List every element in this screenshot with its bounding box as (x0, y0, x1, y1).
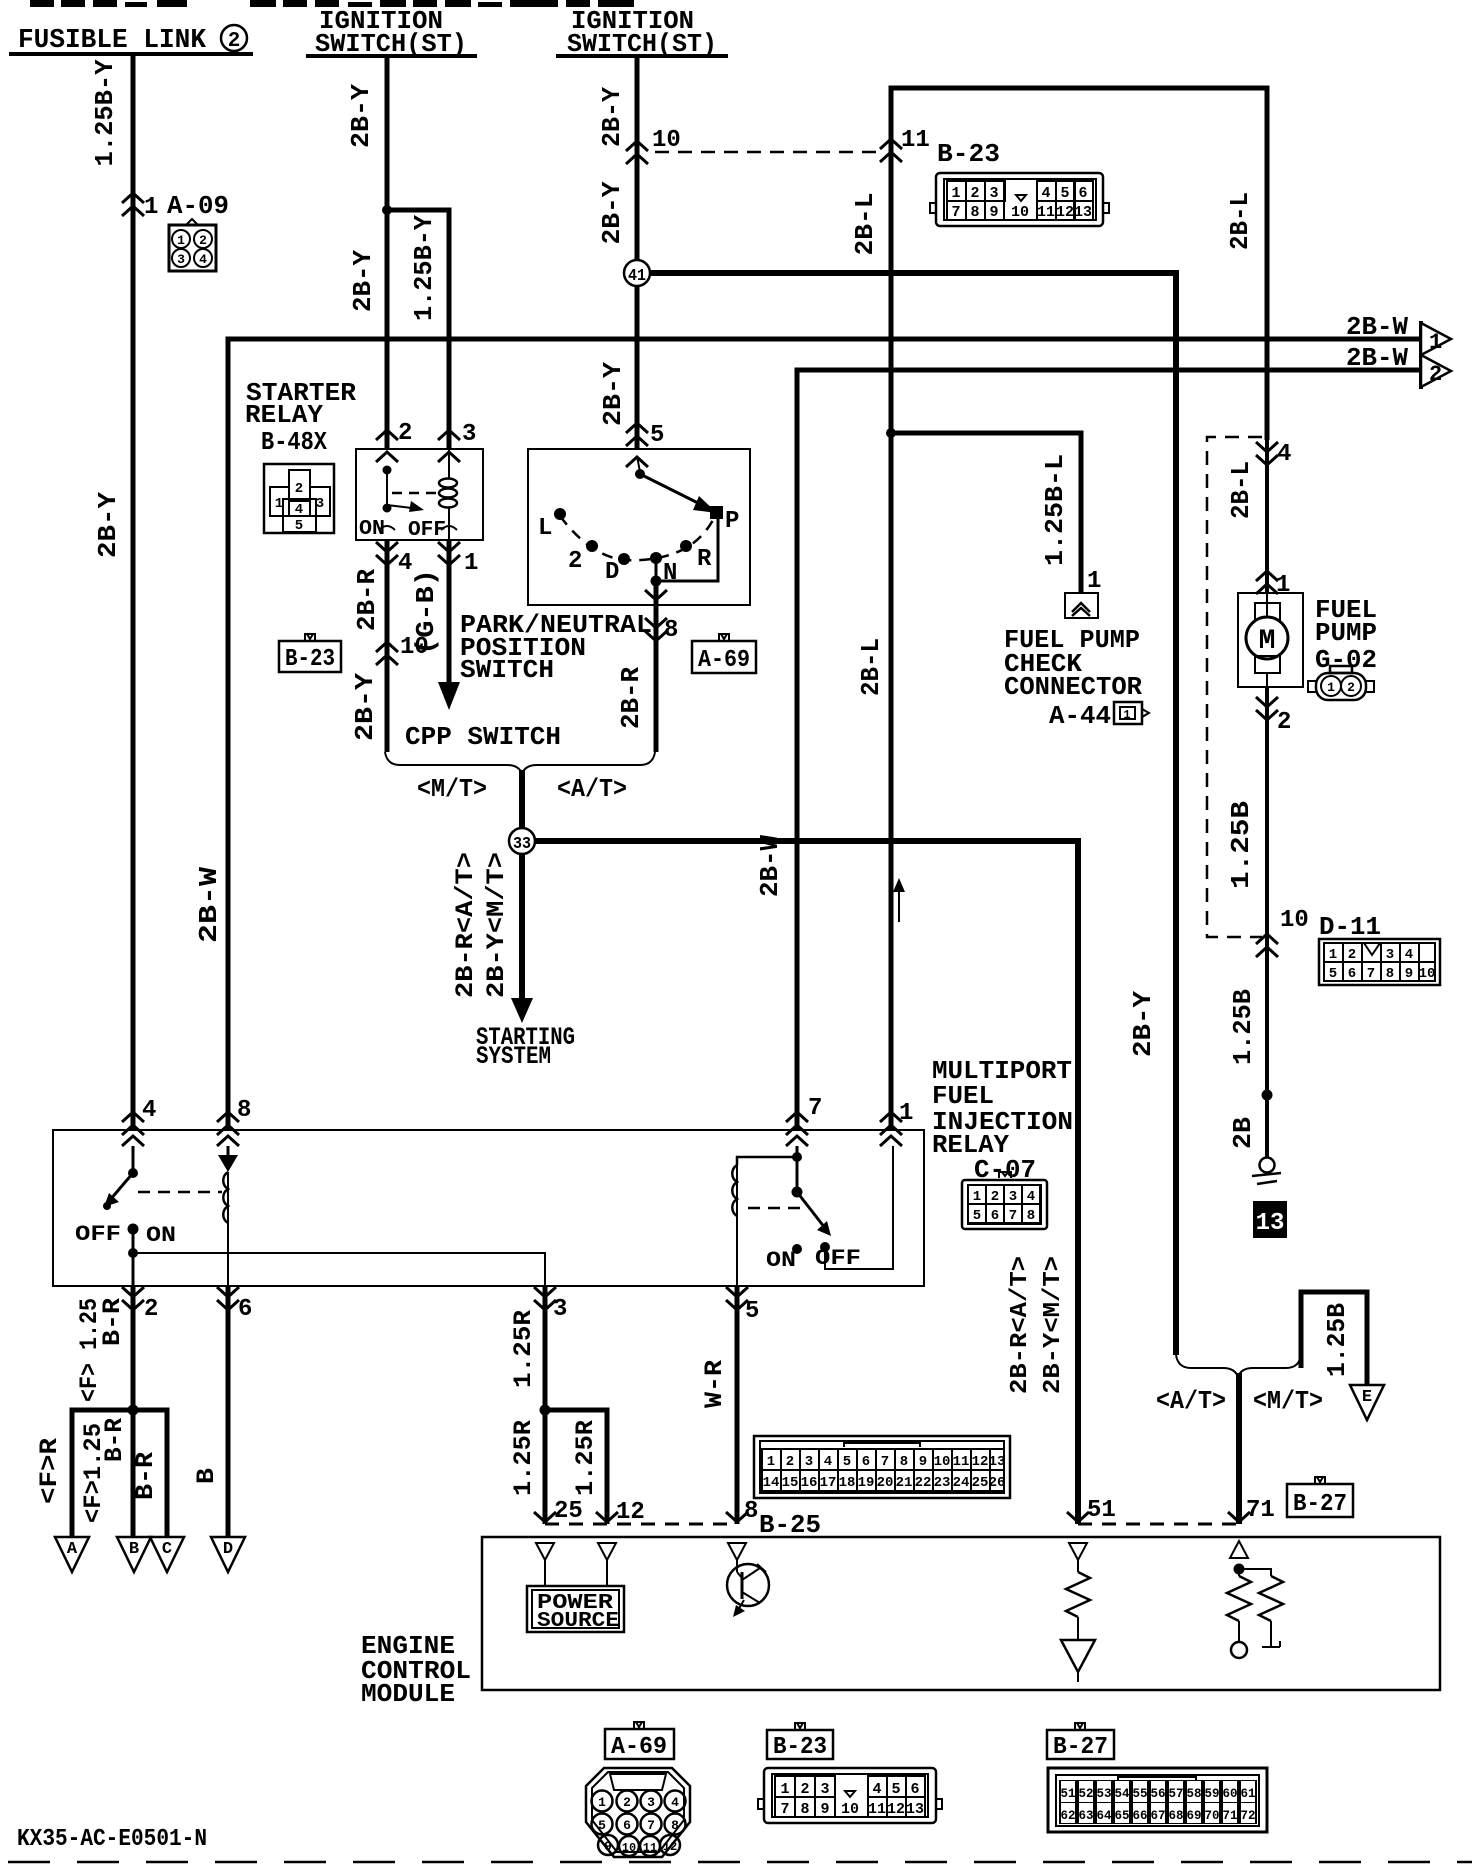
svg-text:B-27: B-27 (1053, 1734, 1108, 1761)
junction dot pullup (1234, 1564, 1245, 1575)
wire branch to ground A (72, 1410, 135, 1537)
svg-text:2B-Y: 2B-Y (93, 492, 123, 558)
label MULTIPORT FUEL INJECTION RELAY C-07 (932, 1056, 1073, 1185)
arrowhead to CPP switch (438, 682, 460, 710)
svg-text:B-R: B-R (100, 1418, 129, 1462)
svg-text:7: 7 (808, 1095, 822, 1122)
ECM input triangle pin 12 (598, 1543, 616, 1560)
svg-text:<A/T>: <A/T> (1156, 1386, 1226, 1416)
svg-text:54: 54 (1114, 1787, 1130, 1801)
svg-text:1.25R: 1.25R (509, 1310, 538, 1388)
wire node 33 down to starting system (519, 854, 525, 1000)
pin 1 inner chevron (880, 1136, 902, 1146)
svg-text:OFF: OFF (75, 1222, 121, 1247)
connector B-25 icon (754, 1436, 1010, 1498)
connector marker pin 10 (626, 141, 648, 164)
svg-text:13: 13 (1256, 1210, 1285, 1237)
svg-text:1.25B-Y: 1.25B-Y (90, 59, 120, 166)
pin 8 inner chevron (217, 1136, 239, 1146)
wire to pin 3 (133, 1253, 545, 1285)
svg-text:2B-Y: 2B-Y (597, 181, 627, 244)
svg-text:51: 51 (1087, 1497, 1116, 1524)
svg-text:OFF: OFF (408, 519, 446, 542)
svg-text:G-02: G-02 (1315, 645, 1377, 675)
svg-text:FUSIBLE LINK: FUSIBLE LINK (18, 26, 207, 56)
svg-text:2: 2 (991, 1189, 999, 1205)
label FUEL PUMP CHECK CONNECTOR A-44 (1004, 625, 1142, 731)
wire node 33 to right column (535, 841, 1078, 1524)
svg-text:3: 3 (177, 252, 185, 267)
svg-text:2B-W: 2B-W (1346, 343, 1408, 373)
svg-text:ON: ON (359, 518, 385, 541)
wire MFI contact to pin 1 (825, 1146, 893, 1269)
svg-text:60: 60 (1222, 1787, 1237, 1801)
resistor R51 (1066, 1560, 1090, 1640)
svg-text:65: 65 (1114, 1809, 1129, 1823)
ground A (55, 1537, 89, 1572)
connector marker pin 4 fuel pump (1256, 442, 1278, 465)
ground D (211, 1537, 245, 1572)
svg-text:R: R (697, 546, 712, 573)
connector B-27 boxed label right (1287, 1477, 1353, 1518)
pin 25 marker (534, 1512, 556, 1522)
svg-text:SOURCE: SOURCE (537, 1610, 619, 1633)
svg-text:2: 2 (228, 30, 241, 53)
svg-text:A-69: A-69 (611, 1734, 667, 1761)
svg-text:6: 6 (238, 1296, 252, 1323)
motor FUEL PUMP G-02 (1238, 593, 1303, 687)
svg-text:OFF: OFF (815, 1246, 861, 1271)
svg-text:8: 8 (237, 1097, 251, 1124)
svg-text:PUMP: PUMP (1315, 618, 1377, 648)
svg-text:B-R: B-R (98, 1298, 127, 1346)
svg-text:5: 5 (1329, 966, 1337, 982)
svg-text:10: 10 (622, 1841, 636, 1855)
svg-text:2B: 2B (1228, 1117, 1258, 1149)
svg-text:3: 3 (1009, 1189, 1017, 1205)
connector marker pin 10 mid (376, 642, 398, 665)
PNP contact dots and arc (554, 506, 723, 565)
svg-text:21: 21 (896, 1475, 913, 1491)
svg-text:2B-L: 2B-L (1225, 192, 1255, 250)
starter relay switch (383, 466, 425, 513)
svg-text:6: 6 (1078, 185, 1087, 202)
svg-text:2: 2 (144, 1296, 158, 1323)
svg-text:1: 1 (1329, 947, 1337, 963)
svg-text:2B-Y: 2B-Y (350, 673, 380, 741)
svg-text:6: 6 (623, 1818, 631, 1833)
pin 8 marker ECM (726, 1512, 748, 1522)
svg-text:25: 25 (972, 1475, 989, 1491)
connector A-69 boxed label bottom (605, 1722, 674, 1761)
svg-text:13: 13 (906, 1801, 924, 1818)
svg-text:3: 3 (989, 185, 998, 202)
dashed link wire to pin 11 (655, 151, 884, 154)
pin 8 exit chevron (645, 590, 667, 600)
svg-text:B-R: B-R (131, 1452, 160, 1500)
connector C-07 icon (962, 1172, 1047, 1229)
connector marker pin 10 D-11 (1256, 934, 1278, 957)
svg-text:10: 10 (1011, 204, 1029, 221)
svg-text:5: 5 (1060, 185, 1069, 202)
bottom separator dashed line (8, 1861, 1472, 1864)
pin 3 marker bottom (534, 1287, 556, 1310)
svg-text:M: M (1259, 626, 1276, 657)
wire 1.25B below fuel pump (1265, 687, 1269, 1160)
connector B-27 icon bottom (1048, 1768, 1267, 1832)
svg-text:59: 59 (1204, 1787, 1219, 1801)
svg-text:6: 6 (991, 1208, 999, 1224)
left relay coil (227, 1172, 229, 1285)
svg-text:8: 8 (970, 204, 979, 221)
svg-text:1: 1 (177, 233, 185, 248)
ground ref 13 black box (1253, 1201, 1287, 1238)
svg-text:MODULE: MODULE (361, 1679, 455, 1709)
svg-text:4: 4 (1277, 441, 1291, 468)
svg-text:N: N (663, 560, 677, 587)
wire pin 6 down to ground D (226, 1285, 231, 1537)
transistor Q inside ECM (727, 1560, 769, 1617)
svg-text:61: 61 (1240, 1787, 1255, 1801)
label ENGINE CONTROL MODULE (361, 1631, 471, 1709)
svg-text:51: 51 (1060, 1787, 1075, 1801)
AT MT bracket right (1176, 1355, 1301, 1377)
switch dashed link to coil (392, 492, 446, 495)
wire 1.25B-L to fuel pump check connector (891, 433, 1081, 593)
connector marker pin 1 A-09 (122, 193, 144, 216)
dashed link MFI relay (748, 1207, 806, 1210)
svg-text:E: E (1362, 1388, 1372, 1407)
svg-text:B-27: B-27 (1293, 1491, 1347, 1518)
PNP switch blade (635, 456, 717, 513)
svg-text:13: 13 (1074, 204, 1092, 221)
wire pin 2 down to ground branches (131, 1285, 136, 1537)
svg-text:5: 5 (295, 518, 303, 534)
svg-text:2: 2 (786, 1454, 794, 1470)
svg-text:41: 41 (628, 267, 646, 286)
connector A-44 termination box (1065, 593, 1098, 618)
connector B-23 boxed label mid-left (279, 634, 341, 673)
svg-text:12: 12 (887, 1801, 905, 1818)
left relay diode (218, 1146, 238, 1172)
ground E (1350, 1385, 1384, 1420)
svg-text:L: L (538, 515, 552, 542)
svg-text:5: 5 (745, 1298, 759, 1325)
starter relay coil (448, 449, 450, 540)
svg-text:2B-R<A/T>: 2B-R<A/T> (451, 852, 480, 998)
wire to power source left (544, 1560, 546, 1586)
svg-text:7: 7 (951, 204, 960, 221)
wire to power source right (606, 1560, 608, 1586)
svg-text:1.25B-L: 1.25B-L (1040, 454, 1070, 566)
svg-text:A-09: A-09 (167, 191, 229, 221)
ground C (150, 1537, 184, 1572)
svg-text:D: D (223, 1540, 233, 1559)
svg-text:2: 2 (970, 185, 979, 202)
svg-text:5: 5 (843, 1454, 851, 1470)
svg-text:2: 2 (800, 1781, 809, 1798)
svg-text:2B-W: 2B-W (1346, 312, 1408, 342)
svg-text:2B-Y: 2B-Y (1128, 991, 1158, 1057)
svg-text:11: 11 (901, 127, 930, 154)
svg-text:14: 14 (763, 1475, 780, 1491)
svg-text:12: 12 (972, 1454, 989, 1470)
svg-text:2: 2 (1277, 709, 1291, 736)
wire 1.25B-Y from fusible link down (131, 54, 136, 1130)
svg-text:67: 67 (1150, 1809, 1165, 1823)
left relay switch (103, 1146, 139, 1285)
connector marker pin 5 (626, 423, 648, 446)
title fragment (cut off page heading) (30, 0, 634, 7)
svg-text:11: 11 (868, 1801, 886, 1818)
svg-text:4: 4 (671, 1795, 679, 1810)
junction dot (382, 205, 392, 215)
svg-text:64: 64 (1096, 1809, 1112, 1823)
pin 3 marker (438, 430, 460, 440)
svg-text:2B-Y<M/T>: 2B-Y<M/T> (482, 852, 511, 998)
svg-text:<A/T>: <A/T> (557, 774, 627, 804)
svg-text:4: 4 (199, 252, 207, 267)
svg-text:9: 9 (1405, 966, 1413, 982)
svg-text:68: 68 (1168, 1809, 1183, 1823)
connector marker pin 2 fuel pump (1256, 697, 1278, 720)
svg-text:2: 2 (1348, 947, 1356, 963)
svg-text:2B-Y<M/T>: 2B-Y<M/T> (1040, 1256, 1067, 1394)
wire 2B-Y ignition switch 1 down (385, 56, 390, 449)
svg-text:23: 23 (934, 1475, 951, 1491)
svg-text:18: 18 (839, 1475, 856, 1491)
svg-text:9: 9 (820, 1801, 829, 1818)
connector B-23 icon (930, 173, 1109, 226)
svg-text:4: 4 (1027, 1189, 1035, 1205)
pin 4 marker below box (376, 542, 398, 565)
dashed ECM connector line B-25 (545, 1523, 737, 1526)
ECM input triangle pin 25 (536, 1543, 554, 1560)
svg-text:A-69: A-69 (698, 647, 750, 674)
pin 51 marker (1067, 1512, 1089, 1522)
wire rail 2B-W no.1 (228, 339, 1419, 1130)
ground body connection (1252, 1158, 1281, 1185)
svg-text:4: 4 (872, 1781, 881, 1798)
pin 5 inner chevron (626, 457, 648, 467)
wire branch to 1.25B-Y (387, 210, 449, 449)
connector marker pin 11 (880, 139, 902, 162)
svg-text:3: 3 (647, 1795, 655, 1810)
node FUSIBLE LINK 2 label (9, 25, 253, 56)
svg-text:1.25B: 1.25B (1322, 1303, 1352, 1377)
svg-text:5: 5 (598, 1818, 606, 1833)
svg-text:B-25: B-25 (759, 1510, 821, 1540)
dashed bypass box around fuel pump (1207, 437, 1262, 937)
svg-text:1: 1 (1429, 330, 1442, 355)
off-page arrow 1 (1421, 321, 1451, 357)
svg-text:2B-Y: 2B-Y (346, 84, 376, 148)
svg-text:1.25B-Y: 1.25B-Y (409, 215, 439, 321)
pin 8 marker top (217, 1112, 239, 1135)
wire bracket stem to node 33 (519, 770, 525, 829)
ground B (117, 1537, 151, 1572)
junction dot 1.25R split (540, 1405, 551, 1416)
svg-text:B-23: B-23 (773, 1734, 827, 1761)
svg-text:6: 6 (1348, 966, 1356, 982)
wire 2B-R from relay pin 4 (385, 540, 390, 752)
svg-text:1.25B: 1.25B (1228, 989, 1258, 1065)
wire 2B-Y ignition switch 2 down (635, 56, 640, 449)
svg-text:1.25B: 1.25B (1226, 801, 1256, 889)
svg-text:1: 1 (780, 1781, 789, 1798)
svg-text:1: 1 (1123, 708, 1130, 722)
svg-text:3: 3 (1386, 947, 1394, 963)
wire to second resistor (1239, 1569, 1271, 1576)
svg-text:W-R: W-R (700, 1360, 729, 1408)
wire branch to ground C (133, 1410, 167, 1537)
svg-text:24: 24 (953, 1475, 970, 1491)
pin 5 marker bottom (726, 1287, 748, 1310)
arrowhead starting system (511, 998, 533, 1023)
junction dot wire size change (1262, 1090, 1273, 1101)
svg-text:1: 1 (951, 185, 960, 202)
connector D-11 icon (1319, 939, 1440, 985)
wire fuel pump feed (1265, 440, 1269, 593)
svg-text:2B-Y: 2B-Y (348, 250, 378, 312)
connector A-69 icon bottom (586, 1768, 690, 1857)
svg-text:55: 55 (1132, 1787, 1147, 1801)
svg-text:1: 1 (767, 1454, 775, 1470)
wire pin 3 down 1.25R (543, 1285, 548, 1524)
svg-text:2B-L: 2B-L (850, 193, 880, 256)
svg-text:1: 1 (464, 550, 478, 577)
svg-text:SWITCH: SWITCH (460, 655, 554, 685)
svg-text:CPP SWITCH: CPP SWITCH (405, 722, 561, 752)
MT/AT selector bracket (385, 752, 655, 774)
svg-text:15: 15 (782, 1475, 799, 1491)
svg-text:<M/T>: <M/T> (1253, 1386, 1323, 1416)
node IGNITION SWITCH (ST) no.1 (306, 6, 477, 59)
svg-text:1: 1 (275, 496, 283, 512)
svg-text:10: 10 (841, 1801, 859, 1818)
node 33 junction circle (509, 828, 535, 854)
pin 8 outer chevron (645, 618, 667, 641)
svg-text:P: P (725, 508, 739, 535)
svg-text:4: 4 (1041, 185, 1050, 202)
svg-text:11: 11 (1037, 204, 1055, 221)
svg-text:70: 70 (1204, 1809, 1219, 1823)
svg-text:52: 52 (1078, 1787, 1093, 1801)
svg-text:1: 1 (598, 1795, 606, 1810)
off-page arrow 2 (1421, 353, 1451, 389)
junction dot 2B-L to A-44 (886, 428, 896, 438)
contact hook right (441, 526, 457, 530)
svg-text:4: 4 (142, 1097, 156, 1124)
svg-text:2B-Y: 2B-Y (597, 87, 627, 147)
svg-text:4: 4 (824, 1454, 832, 1470)
svg-text:7: 7 (881, 1454, 889, 1470)
svg-text:8: 8 (671, 1818, 679, 1833)
pin 71 marker (1228, 1512, 1250, 1522)
wire MT branch to ground E (1301, 1292, 1367, 1385)
svg-text:25: 25 (554, 1498, 583, 1525)
resistor R71a (1227, 1569, 1251, 1658)
wire bracket stem to pin 71 (1236, 1373, 1242, 1524)
svg-text:RELAY: RELAY (245, 400, 323, 430)
svg-text:2: 2 (568, 548, 582, 575)
svg-text:26: 26 (989, 1475, 1006, 1491)
svg-text:D-11: D-11 (1319, 912, 1381, 942)
wire 2B-L top loop (891, 88, 1267, 1130)
svg-text:CONNECTOR: CONNECTOR (1004, 672, 1142, 702)
svg-text:8: 8 (1027, 1208, 1035, 1224)
svg-text:<F>R: <F>R (35, 1438, 64, 1504)
ECM input triangle pin 8 (728, 1543, 746, 1560)
svg-text:2: 2 (623, 1795, 631, 1810)
svg-text:9: 9 (989, 204, 998, 221)
pin 4 inner chevron (122, 1136, 144, 1146)
svg-text:(G-B): (G-B) (411, 569, 441, 655)
svg-text:B-48X: B-48X (261, 427, 327, 457)
svg-text:33: 33 (513, 835, 531, 854)
svg-text:B: B (129, 1540, 139, 1559)
svg-text:1: 1 (1276, 572, 1290, 599)
pin 3 inner chevron (438, 452, 460, 462)
svg-text:2B-L: 2B-L (856, 638, 886, 696)
svg-text:10: 10 (1280, 907, 1309, 934)
svg-text:3: 3 (316, 496, 324, 512)
svg-text:2: 2 (1429, 362, 1442, 387)
pin 2 inner chevron (376, 452, 398, 462)
svg-text:5: 5 (973, 1208, 981, 1224)
svg-text:C: C (162, 1540, 172, 1559)
svg-text:8: 8 (900, 1454, 908, 1470)
svg-text:8: 8 (800, 1801, 809, 1818)
svg-text:2B-R: 2B-R (616, 667, 646, 729)
svg-text:A-44: A-44 (1049, 701, 1111, 731)
svg-text:69: 69 (1186, 1809, 1201, 1823)
svg-text:B: B (192, 1468, 221, 1484)
svg-text:1: 1 (1327, 680, 1335, 695)
svg-text:62: 62 (1060, 1809, 1075, 1823)
svg-text:11: 11 (953, 1454, 970, 1470)
svg-text:4: 4 (1405, 947, 1413, 963)
connector B-27 boxed label bottom (1047, 1723, 1114, 1761)
svg-text:ON: ON (146, 1223, 176, 1248)
pin 12 marker (596, 1512, 618, 1522)
svg-text:2: 2 (199, 233, 207, 248)
svg-text:2: 2 (1347, 680, 1355, 695)
ground inside ECM (1061, 1640, 1095, 1682)
svg-text:12: 12 (1056, 204, 1074, 221)
svg-text:SYSTEM: SYSTEM (476, 1042, 551, 1071)
pin 7 inner chevron (786, 1136, 808, 1146)
svg-text:63: 63 (1078, 1809, 1093, 1823)
switch PARK/NEUTRAL POSITION SWITCH box (528, 449, 750, 605)
contact hook left (379, 526, 395, 530)
svg-text:2: 2 (295, 481, 303, 497)
connector A-69 boxed label mid (692, 634, 756, 674)
dashed link left relay (138, 1191, 222, 1194)
junction dot ground split (128, 1405, 139, 1416)
pin 2 marker bottom (122, 1287, 144, 1310)
MFI relay coil (732, 1152, 802, 1285)
pin 2 marker (376, 430, 398, 440)
svg-text:2B-Y: 2B-Y (598, 362, 628, 426)
svg-text:20: 20 (877, 1475, 894, 1491)
connector B-23 icon bottom (758, 1768, 942, 1823)
svg-text:3: 3 (805, 1454, 813, 1470)
relay STARTER RELAY B-48X label (245, 378, 356, 457)
label FUEL PUMP G-02 (1315, 595, 1377, 675)
svg-text:66: 66 (1132, 1809, 1147, 1823)
svg-text:3: 3 (462, 421, 476, 448)
